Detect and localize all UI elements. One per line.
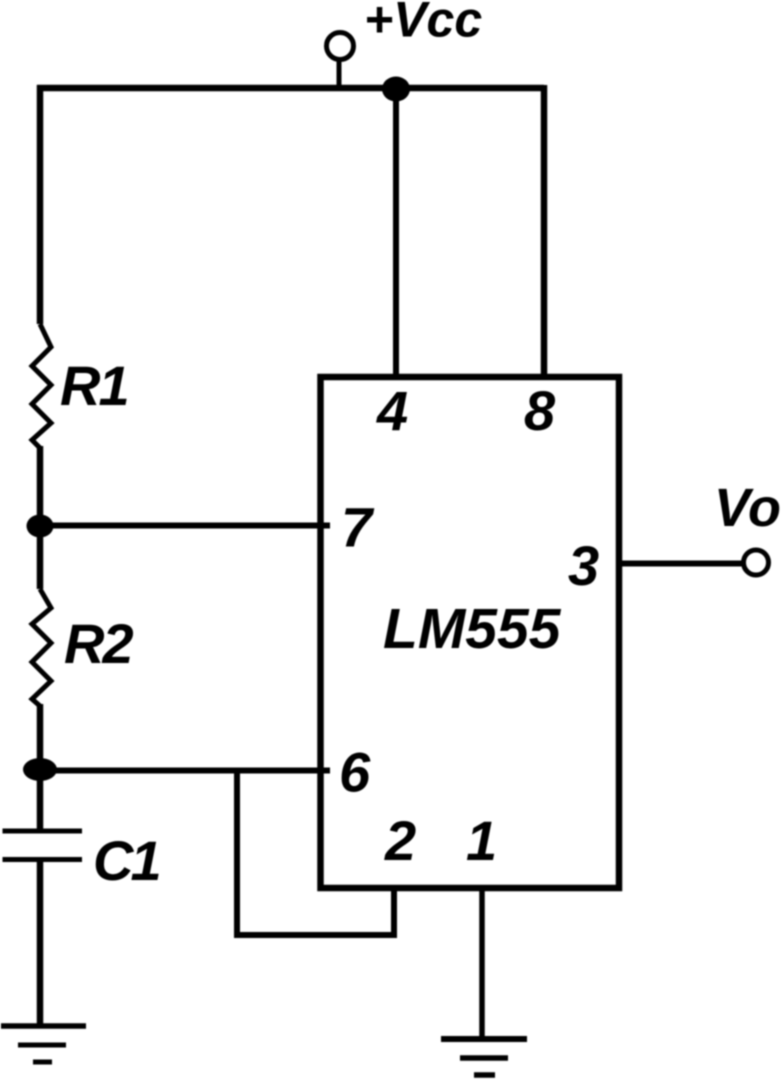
svg-text:2: 2 (384, 809, 416, 872)
svg-text:R2: R2 (64, 612, 133, 675)
op-amp U1: LM555 timer IC body (321, 377, 620, 888)
svg-text:C1: C1 (93, 829, 159, 892)
resistor R1 (32, 324, 51, 448)
Vo terminal circle (744, 550, 769, 575)
svg-text:R1: R1 (60, 354, 128, 417)
wire: R2 bottom to node B (37, 704, 44, 766)
wire: pin 3 output to Vo terminal (619, 561, 743, 567)
node C: junction dot on top rail feeding pin 4 (382, 77, 410, 102)
wire: R1 bottom to node A (37, 446, 44, 522)
wire: pin 7 horizontal from node A to IC (40, 523, 330, 529)
svg-text:1: 1 (466, 809, 497, 872)
resistor R2 (32, 589, 51, 706)
capacitor C1 top plate (3, 829, 83, 834)
wire: +Vcc stub down to top rail (337, 59, 342, 88)
+Vcc terminal circle (327, 33, 354, 60)
wire: pin 6 horizontal from node B to IC (40, 768, 330, 774)
capacitor C1 bottom plate (3, 857, 83, 862)
svg-text:+Vcc: +Vcc (364, 0, 482, 48)
wire: pin 8 drop from top rail to IC top (541, 85, 548, 377)
wire: left vertical rail from top rail down to R1 (37, 85, 44, 324)
wire: pin 2 loop from IC bottom around to pin 6 net (237, 768, 394, 935)
svg-text:8: 8 (524, 379, 556, 442)
svg-text:3: 3 (568, 534, 599, 597)
node B: junction dot R2/C1/pin6 (23, 758, 57, 781)
wire: pin 4 drop from node C to IC top (393, 89, 399, 377)
wire: node A down to R2 (37, 530, 44, 589)
wire: C1 bottom plate to ground (37, 861, 44, 1026)
wire: pin 1 drop from IC bottom to ground (479, 888, 485, 1039)
svg-text:LM555: LM555 (383, 597, 562, 661)
ground (below pin 1) (441, 1039, 527, 1075)
ground (left, below C1) (1, 1026, 86, 1062)
svg-text:Vo: Vo (714, 478, 781, 538)
svg-text:4: 4 (376, 380, 408, 443)
node A: junction dot R1/R2/pin7 (27, 515, 54, 538)
svg-text:6: 6 (339, 741, 371, 804)
svg-text:7: 7 (341, 496, 375, 559)
wire: node B down to C1 top plate (37, 774, 44, 829)
wire: top horizontal rail from left rail to pin-8 drop (37, 85, 544, 92)
